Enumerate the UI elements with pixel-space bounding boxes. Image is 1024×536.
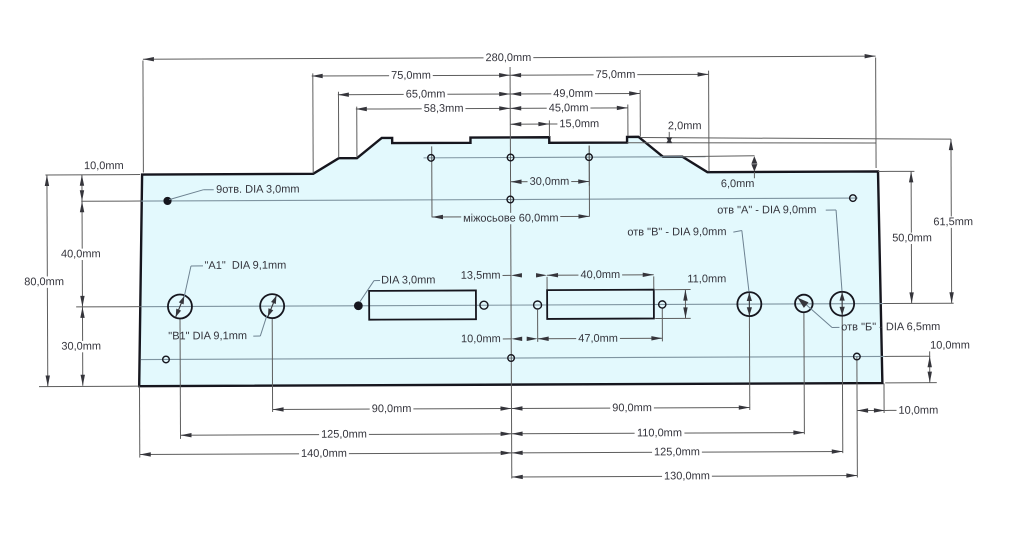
svg-text:40,0mm: 40,0mm	[580, 269, 620, 281]
svg-text:47,0mm: 47,0mm	[578, 333, 618, 345]
svg-text:125,0mm: 125,0mm	[654, 446, 700, 458]
svg-text:11,0mm: 11,0mm	[687, 273, 726, 285]
svg-text:10,0mm: 10,0mm	[930, 339, 970, 351]
svg-text:65,0mm: 65,0mm	[406, 88, 446, 100]
svg-text:отв "А" - DIA 9,0mm: отв "А" - DIA 9,0mm	[717, 204, 816, 216]
svg-text:49,0mm: 49,0mm	[553, 88, 593, 100]
svg-text:6,0mm: 6,0mm	[721, 178, 755, 190]
svg-text:45,0mm: 45,0mm	[549, 102, 589, 114]
svg-text:"A1" DIA 9,1mm: "A1" DIA 9,1mm	[204, 260, 286, 272]
svg-text:58,3mm: 58,3mm	[424, 103, 464, 115]
svg-text:80,0mm: 80,0mm	[24, 276, 64, 288]
svg-text:40,0mm: 40,0mm	[61, 248, 101, 260]
svg-text:50,0mm: 50,0mm	[892, 232, 932, 244]
svg-text:13,5mm: 13,5mm	[461, 270, 501, 282]
svg-text:30,0mm: 30,0mm	[530, 176, 570, 188]
svg-text:10,0mm: 10,0mm	[461, 333, 501, 345]
svg-text:15,0mm: 15,0mm	[559, 118, 599, 130]
svg-text:10,0mm: 10,0mm	[84, 160, 124, 172]
svg-text:130,0mm: 130,0mm	[664, 470, 710, 482]
svg-text:110,0mm: 110,0mm	[637, 427, 682, 439]
svg-text:отв "В" - DIA 9,0mm: отв "В" - DIA 9,0mm	[627, 226, 726, 238]
svg-text:DIA 3,0mm: DIA 3,0mm	[381, 274, 435, 286]
svg-text:9отв. DIA 3,0mm: 9отв. DIA 3,0mm	[216, 183, 299, 195]
svg-text:міжосьове 60,0mm: міжосьове 60,0mm	[463, 212, 559, 224]
svg-text:75,0mm: 75,0mm	[596, 69, 636, 81]
svg-text:2,0mm: 2,0mm	[668, 120, 702, 132]
svg-text:125,0mm: 125,0mm	[321, 429, 367, 441]
svg-text:90,0mm: 90,0mm	[372, 403, 412, 415]
svg-text:10,0mm: 10,0mm	[898, 405, 938, 417]
svg-text:"B1" DIA 9,1mm: "B1" DIA 9,1mm	[168, 330, 247, 342]
svg-text:140,0mm: 140,0mm	[301, 448, 347, 460]
svg-text:30,0mm: 30,0mm	[61, 341, 101, 353]
svg-text:75,0mm: 75,0mm	[391, 70, 431, 82]
svg-text:отв "Б" - DIA 6,5mm: отв "Б" - DIA 6,5mm	[841, 321, 940, 333]
svg-text:280,0mm: 280,0mm	[485, 52, 531, 64]
svg-text:61,5mm: 61,5mm	[933, 216, 973, 228]
svg-text:90,0mm: 90,0mm	[612, 402, 652, 414]
